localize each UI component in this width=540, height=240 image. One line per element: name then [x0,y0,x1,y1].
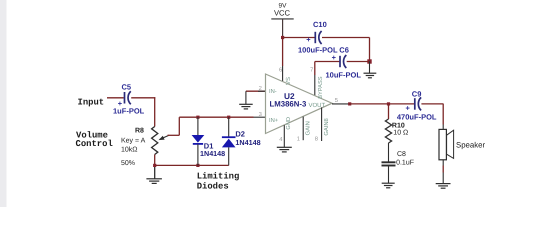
svg-text:10kΩ: 10kΩ [121,145,138,153]
svg-text:7: 7 [310,67,313,73]
svg-text:C5: C5 [122,83,132,92]
svg-text:1N4148: 1N4148 [200,149,225,158]
svg-text:R8: R8 [135,128,144,135]
svg-text:10uF-POL: 10uF-POL [326,70,362,79]
svg-text:+: + [306,35,311,44]
svg-text:LM386N-3: LM386N-3 [270,99,307,108]
svg-text:VOUT: VOUT [309,102,326,109]
svg-text:Input: Input [78,98,105,108]
svg-text:10 Ω: 10 Ω [393,129,408,136]
svg-text:Limiting: Limiting [197,171,240,181]
svg-text:IN-: IN- [269,89,277,95]
svg-text:0.1uF: 0.1uF [396,160,414,167]
svg-text:1: 1 [297,136,300,142]
svg-text:3: 3 [259,111,262,118]
svg-text:C6: C6 [339,46,349,55]
svg-text:50%: 50% [121,160,135,167]
svg-text:IN+: IN+ [269,118,279,124]
svg-text:Speaker: Speaker [456,141,485,150]
svg-text:VS: VS [285,77,292,85]
svg-text:GND: GND [286,117,292,130]
svg-text:1N4148: 1N4148 [235,138,260,147]
svg-text:C10: C10 [313,20,327,29]
svg-text:BYPASS: BYPASS [318,76,324,99]
svg-text:1uF-POL: 1uF-POL [113,107,145,116]
svg-text:5: 5 [335,98,338,104]
svg-text:Diodes: Diodes [197,181,229,191]
svg-text:+: + [332,53,337,62]
svg-text:470uF-POL: 470uF-POL [397,113,437,122]
svg-text:GAIN: GAIN [305,121,312,135]
svg-text:VCC: VCC [274,9,291,18]
svg-text:GAIN8: GAIN8 [323,118,330,135]
svg-text:C8: C8 [397,151,406,158]
svg-text:8: 8 [315,136,318,143]
svg-text:C9: C9 [412,90,422,99]
svg-text:Control: Control [76,139,113,149]
svg-text:+: + [406,104,411,113]
svg-text:2: 2 [259,85,262,92]
svg-text:Key = A: Key = A [121,138,146,145]
svg-text:6: 6 [279,66,282,73]
